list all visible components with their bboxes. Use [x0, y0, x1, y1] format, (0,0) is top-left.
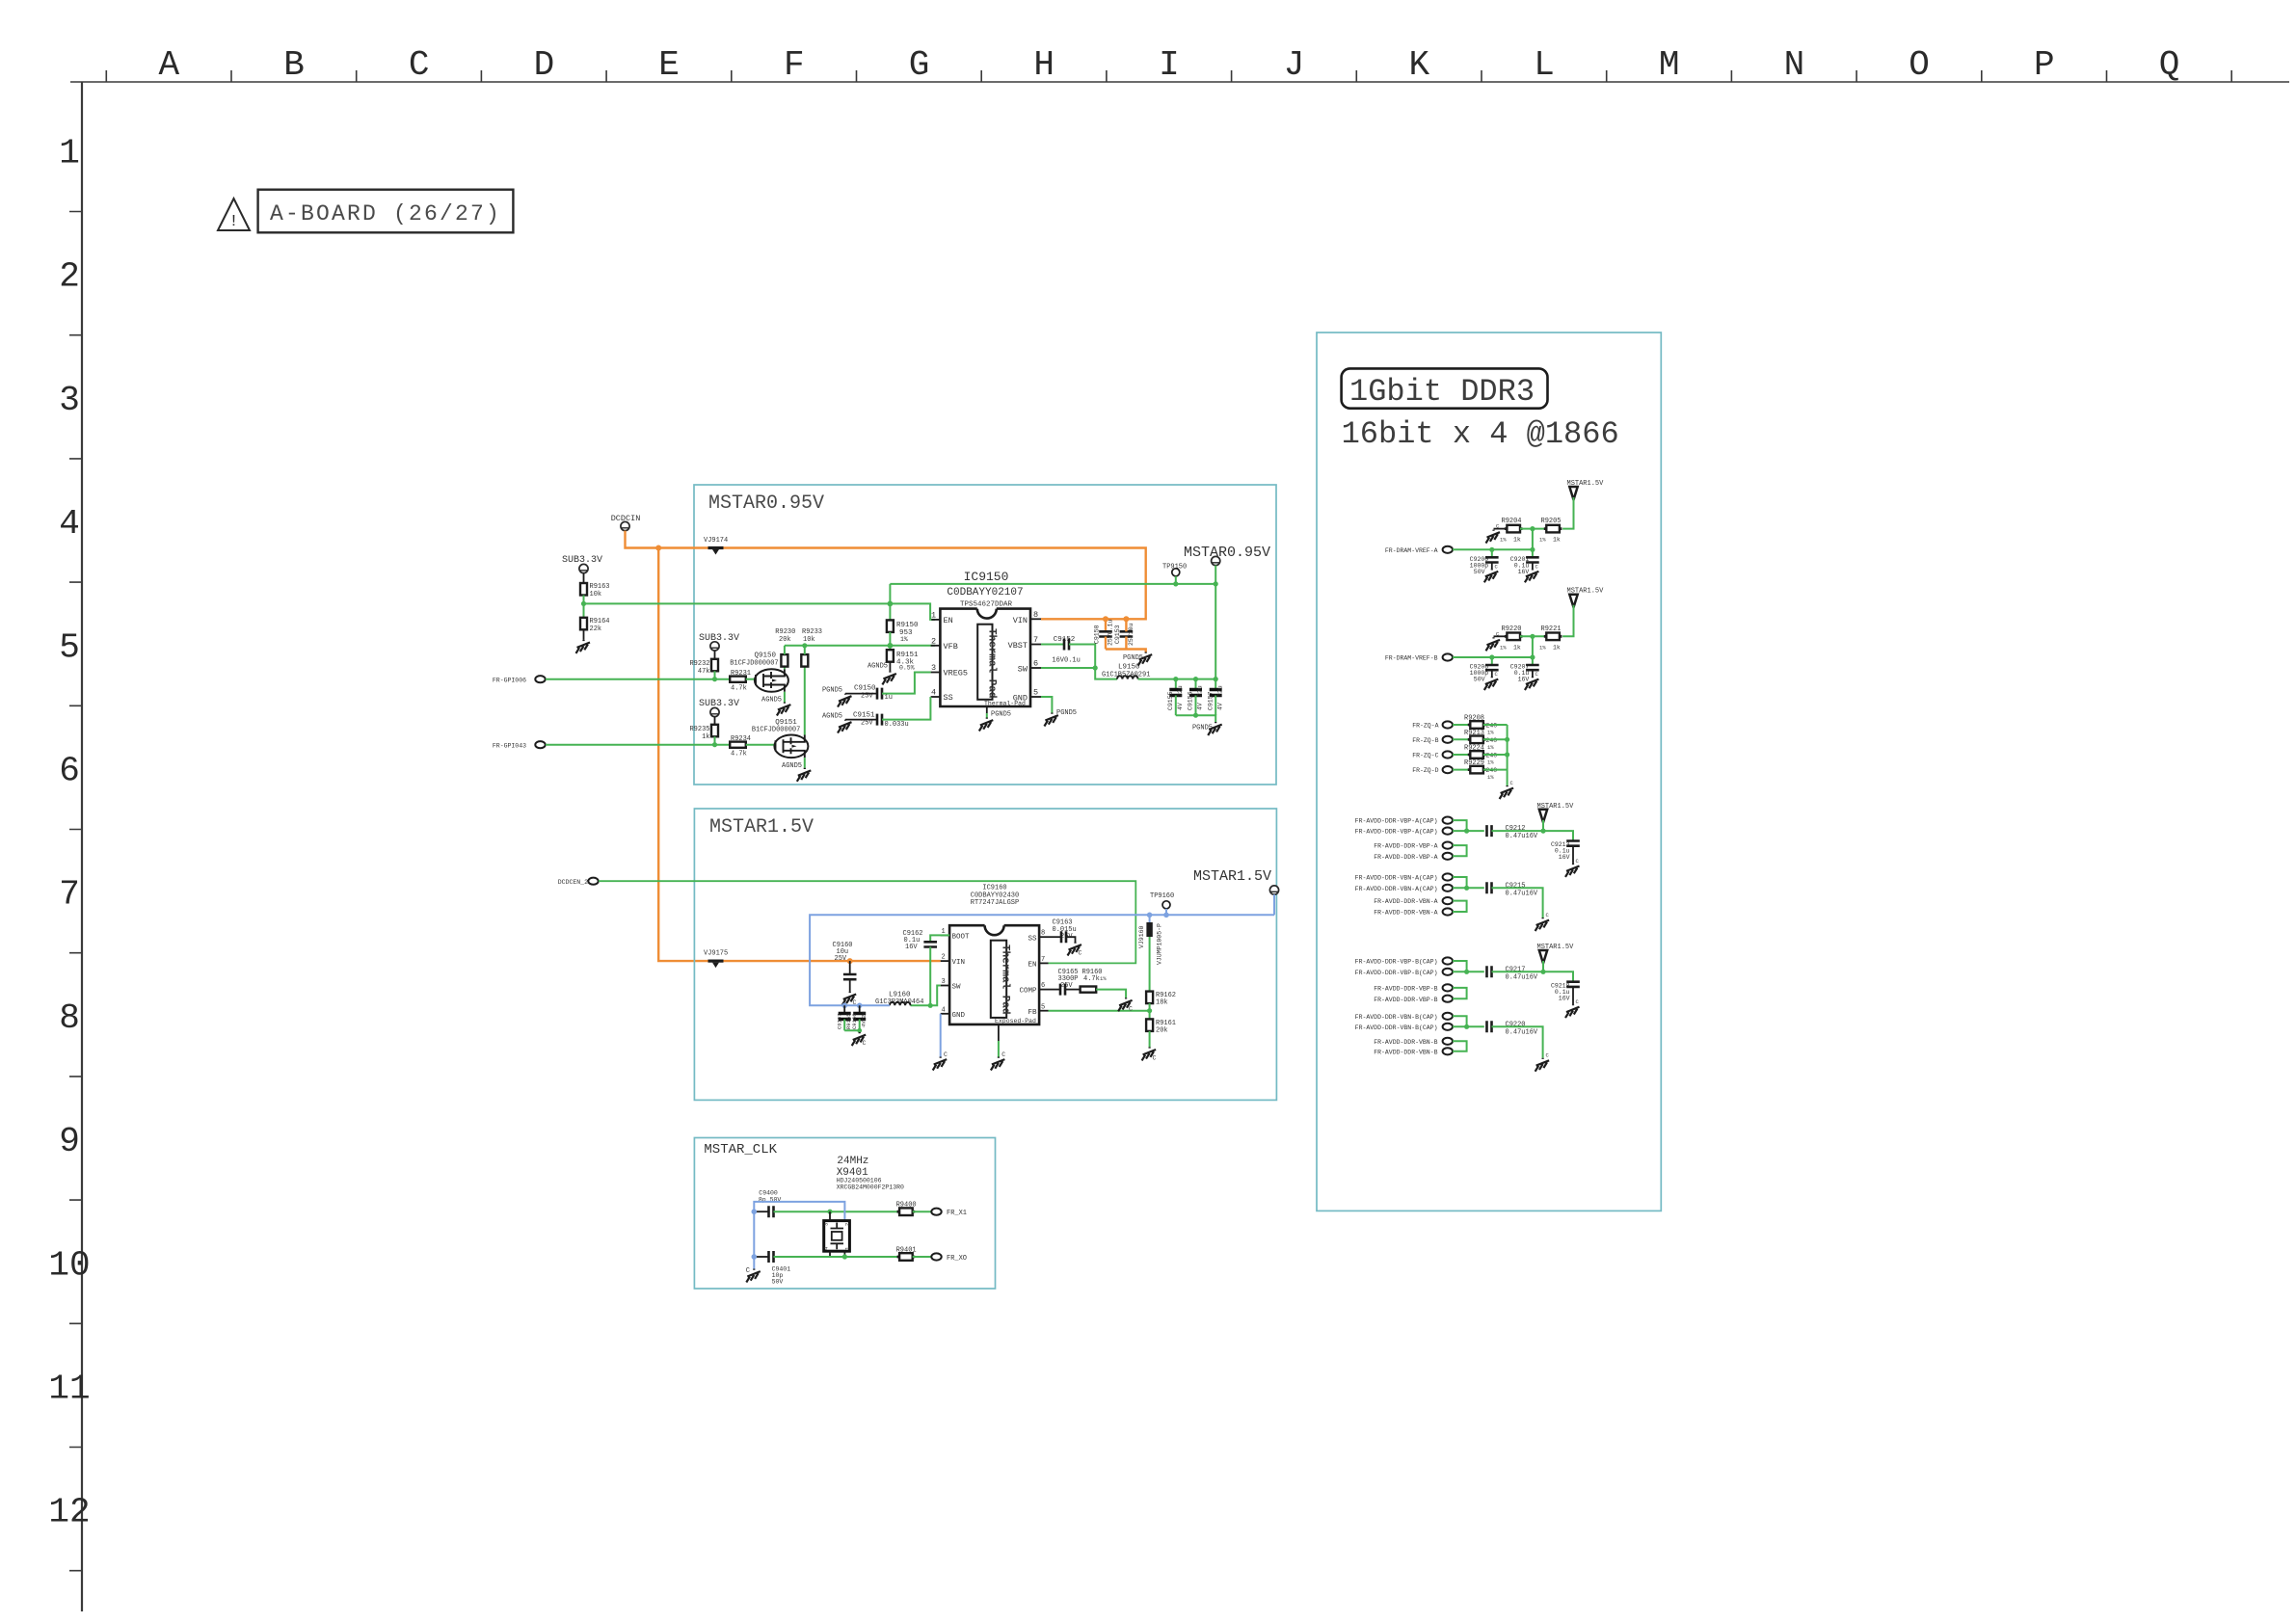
svg-text:C9167: C9167	[837, 1013, 843, 1029]
terminal FR-ZQ-B	[1412, 736, 1453, 744]
svg-text:6: 6	[59, 752, 80, 791]
IC9150 labels	[947, 570, 1023, 609]
svg-text:PGND5: PGND5	[991, 711, 1011, 719]
capacitor C9215 0.47u16V	[1487, 882, 1538, 897]
svg-text:1%: 1%	[1539, 644, 1546, 651]
wire pair	[1453, 1016, 1484, 1026]
wire	[1453, 769, 1470, 771]
resistor R9234 4.7k	[730, 735, 751, 758]
svg-text:6: 6	[1041, 982, 1045, 990]
title box A-BOARD (26/27)	[258, 190, 514, 233]
ground PGND5	[1044, 709, 1077, 727]
svg-text:B1CFJD000007: B1CFJD000007	[730, 660, 778, 668]
svg-text:C: C	[1079, 950, 1082, 957]
terminal FR-ZQ-A	[1412, 721, 1453, 729]
wire SW to inductor node	[911, 986, 941, 1006]
svg-text:GND: GND	[952, 1012, 966, 1020]
svg-text:Q: Q	[2159, 45, 2180, 85]
svg-text:C9158: C9158	[1094, 625, 1101, 644]
capacitor C9201 0.1u 16V	[1510, 549, 1539, 582]
svg-text:COMP: COMP	[1019, 988, 1037, 996]
blue wire to ground	[753, 1211, 755, 1268]
warning triangle	[218, 199, 250, 231]
wire	[1520, 528, 1546, 530]
svg-text:D: D	[534, 45, 555, 85]
jumper VJ9160 VJUMP1005-P	[1138, 915, 1163, 991]
power MSTAR1.5V arrow (B-VBP)	[1537, 944, 1575, 971]
thermal pad box	[991, 941, 1011, 1018]
wire	[1483, 769, 1508, 771]
svg-text:Thermal Pad: Thermal Pad	[986, 628, 998, 699]
capacitor C9162 0.1u 16V bootstrap	[903, 930, 950, 1005]
wire	[1149, 1003, 1151, 1019]
svg-text:16V: 16V	[1559, 854, 1570, 861]
terminal FR-AVDD-DDR-VBN-B 2	[1374, 1048, 1453, 1055]
resistor R9150 953	[887, 620, 919, 643]
wire	[714, 651, 716, 659]
svg-text:R9221: R9221	[1541, 625, 1562, 633]
exposed pad wire	[998, 1024, 1000, 1041]
svg-text:20k: 20k	[1156, 1027, 1168, 1035]
svg-text:MSTAR1.5V: MSTAR1.5V	[1193, 868, 1271, 885]
svg-text:1: 1	[59, 134, 80, 173]
svg-text:FR-AVDD-DDR-VBP-B(CAP): FR-AVDD-DDR-VBP-B(CAP)	[1355, 959, 1438, 966]
svg-text:5: 5	[1041, 1004, 1045, 1012]
wire SW net	[1041, 668, 1117, 679]
svg-text:1%: 1%	[1100, 975, 1107, 982]
wire	[1520, 635, 1546, 637]
wire green EN net to pin1	[584, 603, 936, 620]
pin 2 VFB	[931, 637, 958, 652]
capacitor C9151 0.033u	[845, 697, 930, 729]
svg-text:VJ9175: VJ9175	[704, 950, 728, 958]
terminal FR-ZQ-C	[1412, 751, 1453, 758]
junctions	[1489, 547, 1494, 552]
svg-text:IC9150: IC9150	[964, 570, 1009, 584]
svg-text:R9232: R9232	[689, 660, 709, 668]
svg-text:VREG5: VREG5	[944, 669, 969, 678]
resistor R9204 1k	[1500, 518, 1523, 544]
capacitor C9217 0.47u16V	[1487, 966, 1538, 981]
svg-text:R9231: R9231	[731, 670, 751, 678]
compensation C9165 R9160	[1049, 969, 1127, 998]
svg-text:7: 7	[1041, 956, 1045, 964]
green junction	[827, 1210, 832, 1214]
svg-text:25V10u: 25V10u	[1128, 623, 1135, 646]
svg-text:Q9150: Q9150	[755, 652, 777, 660]
svg-text:R9233: R9233	[802, 628, 822, 636]
svg-text:!: !	[228, 213, 238, 231]
svg-text:7: 7	[59, 875, 80, 915]
junction FB	[1147, 1008, 1152, 1013]
svg-text:C: C	[944, 1051, 948, 1058]
wire	[889, 632, 891, 650]
svg-text:FB: FB	[1028, 1009, 1037, 1017]
junction divider	[1530, 634, 1535, 639]
svg-text:SW: SW	[1018, 665, 1028, 675]
svg-text:PGND5: PGND5	[822, 687, 842, 695]
resistor R9235 1k	[689, 725, 718, 741]
wire	[714, 736, 716, 744]
svg-text:BOOT: BOOT	[952, 934, 971, 942]
power SUB3.3V	[562, 555, 602, 573]
svg-text:4: 4	[942, 1007, 946, 1015]
svg-text:0.47u16V: 0.47u16V	[1506, 973, 1538, 981]
capacitor C9160 10u 25V	[833, 942, 857, 992]
svg-text:FR-AVDD-DDR-VBP-A: FR-AVDD-DDR-VBP-A	[1374, 854, 1437, 861]
capacitor C9158 0.1u	[1094, 619, 1114, 649]
terminal FR-GPI043	[493, 741, 546, 749]
thermal pad box	[977, 625, 997, 700]
pin 1 BOOT	[941, 928, 970, 942]
svg-text:1%: 1%	[1500, 537, 1507, 544]
junction	[1093, 665, 1098, 670]
power MSTAR1.5V arrow (A)	[1562, 480, 1604, 529]
orange junctions on VIN line	[1103, 616, 1108, 622]
svg-text:1k: 1k	[1553, 644, 1561, 651]
terminal FR_X1	[931, 1209, 967, 1217]
svg-text:AGND5: AGND5	[782, 762, 802, 770]
wire	[889, 662, 891, 672]
ground left of R9204	[1486, 523, 1508, 544]
transistor Q9150 B1CFJD000007	[730, 652, 788, 692]
ground AGND5	[822, 713, 852, 733]
svg-text:MSTAR1.5V: MSTAR1.5V	[709, 816, 814, 838]
terminal FR-DRAM-VREF-B	[1385, 653, 1453, 661]
power SUB3.3V second	[699, 633, 739, 651]
svg-text:1Gbit DDR3: 1Gbit DDR3	[1349, 374, 1535, 410]
svg-text:Exposed-Pad: Exposed-Pad	[995, 1018, 1036, 1024]
svg-text:20k: 20k	[779, 636, 791, 644]
wire pair U	[1453, 988, 1467, 998]
exposed pad wire	[986, 706, 988, 713]
svg-text:C9157: C9157	[1207, 691, 1214, 710]
svg-text:22u: 22u	[1216, 685, 1223, 697]
svg-text:FR-AVDD-DDR-VBN-A(CAP): FR-AVDD-DDR-VBN-A(CAP)	[1355, 875, 1438, 882]
svg-text:XRCGB24M000F2P13R0: XRCGB24M000F2P13R0	[837, 1184, 904, 1191]
svg-text:L: L	[1534, 45, 1555, 85]
svg-text:EN: EN	[1028, 962, 1036, 970]
svg-text:VJUMP1005-P: VJUMP1005-P	[1157, 923, 1163, 965]
junctions	[1489, 654, 1494, 659]
junction	[1214, 581, 1218, 586]
svg-text:FR-GPI043: FR-GPI043	[493, 742, 526, 749]
junction	[857, 1028, 862, 1033]
blue junctions	[841, 1003, 847, 1009]
capacitor C9163 0.015u SS	[1049, 919, 1077, 944]
wire cap bottom rail	[1176, 715, 1215, 722]
svg-text:5: 5	[1033, 688, 1038, 698]
svg-text:1u: 1u	[885, 694, 893, 702]
capacitor C9166	[851, 1005, 868, 1030]
resistor R9162 18k	[1146, 992, 1176, 1007]
regulator IC9160 body	[949, 925, 1039, 1024]
wire orange DCDCIN to VIN	[626, 531, 1146, 620]
wire	[714, 671, 716, 678]
wire	[1453, 754, 1470, 756]
svg-text:A: A	[158, 45, 179, 85]
svg-text:5: 5	[59, 627, 80, 667]
junction	[928, 1003, 933, 1008]
terminal FR-AVDD-DDR-VBP-B 1	[1374, 984, 1453, 992]
pin 8 SS	[1028, 930, 1048, 944]
wire FB	[1049, 1010, 1150, 1012]
capacitor C9401 10p 50V	[754, 1251, 899, 1286]
svg-text:VFB: VFB	[944, 642, 958, 652]
svg-text:22u: 22u	[1197, 685, 1204, 697]
row ticks left	[69, 212, 82, 1571]
terminal FR-ZQ-D	[1412, 766, 1453, 774]
junction divider	[1530, 526, 1535, 531]
svg-text:R9220: R9220	[1502, 625, 1522, 633]
svg-text:16V: 16V	[1518, 569, 1530, 575]
capacitor C9167	[837, 1005, 853, 1030]
svg-text:B: B	[283, 45, 305, 85]
terminal FR-AVDD-DDR-VBN-A 1	[1374, 897, 1453, 905]
svg-text:FR-DRAM-VREF-A: FR-DRAM-VREF-A	[1385, 547, 1438, 554]
svg-text:25V: 25V	[861, 720, 873, 728]
wire	[1483, 738, 1508, 740]
svg-text:50V: 50V	[772, 1279, 784, 1286]
wire VFB line	[785, 645, 935, 647]
svg-text:C9155: C9155	[1167, 691, 1174, 710]
svg-text:AGND5: AGND5	[868, 663, 888, 671]
resistor R9233 10k	[801, 628, 822, 667]
ground C	[746, 1267, 761, 1283]
wire source to ground	[784, 692, 786, 703]
resistor R9229 240	[1464, 759, 1497, 781]
crystal labels 24MHz X9401	[837, 1156, 904, 1191]
svg-text:SS: SS	[1028, 936, 1037, 944]
wire	[1149, 1031, 1151, 1048]
wire	[583, 596, 585, 618]
svg-text:1: 1	[931, 611, 936, 621]
pin 6 COMP	[1019, 982, 1048, 996]
terminal FR-AVDD-DDR-VBP-A 1	[1374, 842, 1453, 850]
svg-text:FR-AVDD-DDR-VBP-A(CAP): FR-AVDD-DDR-VBP-A(CAP)	[1355, 829, 1438, 836]
wire divider tap	[1532, 529, 1534, 550]
wire divider tap	[1532, 636, 1534, 657]
wire	[784, 646, 786, 654]
terminal FR_XO	[931, 1253, 967, 1262]
svg-text:C: C	[746, 1267, 750, 1275]
svg-text:4V22u: 4V22u	[861, 1011, 868, 1027]
pin 1 EN	[931, 611, 953, 626]
svg-text:16V0.1u: 16V0.1u	[1052, 657, 1080, 665]
test point TP9160	[1150, 892, 1174, 915]
svg-text:18k: 18k	[1156, 999, 1168, 1007]
svg-text:FR-AVDD-DDR-VBP-A(CAP): FR-AVDD-DDR-VBP-A(CAP)	[1355, 818, 1438, 825]
wire GND pin to ground	[1041, 697, 1052, 713]
svg-text:H: H	[1033, 45, 1055, 85]
wire pair	[1453, 961, 1484, 971]
svg-text:FR-ZQ-B: FR-ZQ-B	[1412, 737, 1438, 744]
svg-text:12: 12	[48, 1493, 90, 1532]
terminal MSTAR0.95V	[1184, 545, 1270, 584]
pin 8 VIN	[1013, 610, 1041, 625]
transistor Q9151 B1CFJD000007	[752, 719, 809, 758]
block border MSTAR-CLK	[694, 1138, 995, 1290]
wire blue output	[810, 915, 1274, 1005]
power MSTAR1.5V arrow (B)	[1562, 588, 1604, 637]
svg-text:C: C	[1129, 1006, 1133, 1013]
svg-text:16V: 16V	[1559, 995, 1570, 1001]
svg-text:16V: 16V	[1518, 677, 1530, 683]
wire to rail	[1492, 831, 1574, 840]
svg-text:3: 3	[823, 1223, 830, 1226]
junctions	[1505, 737, 1509, 742]
svg-text:R9224: R9224	[1464, 745, 1484, 753]
wire output vertical	[1215, 584, 1216, 679]
ground PGND5	[1123, 652, 1152, 666]
test point TP9150	[1162, 564, 1187, 587]
jumper VJ9174	[704, 537, 728, 555]
wire blue top loop	[754, 1202, 844, 1221]
svg-text:SUB3.3V: SUB3.3V	[699, 633, 739, 644]
terminal FR-AVDD-DDR-VBP-B(CAP) 1	[1355, 957, 1453, 965]
svg-text:VJ9160: VJ9160	[1138, 925, 1145, 948]
terminal FR-AVDD-DDR-VBN-A 2	[1374, 908, 1453, 916]
header 1Gbit DDR3	[1342, 368, 1548, 410]
svg-text:VIN: VIN	[1013, 616, 1028, 625]
svg-text:1k: 1k	[1513, 644, 1521, 651]
ground AGND5	[868, 663, 896, 685]
wire	[746, 678, 756, 680]
inductor L9150 G1C1B5ZA0291	[1102, 664, 1150, 679]
svg-text:0.47u16V: 0.47u16V	[1506, 890, 1538, 897]
junction	[712, 742, 717, 747]
svg-text:25V: 25V	[835, 955, 847, 963]
svg-text:4V: 4V	[1177, 703, 1184, 710]
capacitor C9157 22u	[1207, 679, 1223, 716]
svg-text:FR-AVDD-DDR-VBP-B: FR-AVDD-DDR-VBP-B	[1374, 997, 1437, 1003]
terminal FR-AVDD-DDR-VBP-A(CAP) 2	[1355, 828, 1453, 836]
svg-text:B1CFJD000007: B1CFJD000007	[752, 727, 800, 734]
svg-text:HDJ240500106: HDJ240500106	[837, 1178, 882, 1184]
resistor R9161 20k	[1146, 1019, 1176, 1034]
svg-text:G: G	[909, 45, 930, 85]
IC9160 labels	[971, 885, 1019, 908]
svg-text:22u: 22u	[1177, 685, 1184, 697]
ground C	[991, 1051, 1005, 1071]
power SUB3.3V third	[699, 699, 739, 717]
blue junction	[752, 1254, 758, 1260]
column ticks top	[106, 70, 2231, 82]
wire	[1483, 724, 1508, 726]
terminal FR-AVDD-DDR-VBP-A 2	[1374, 853, 1453, 861]
junction EN divider	[581, 601, 586, 606]
svg-text:8: 8	[59, 998, 80, 1038]
ground	[576, 640, 591, 653]
ground C	[1500, 780, 1514, 799]
resistor R9221 1k	[1539, 625, 1562, 652]
svg-text:4: 4	[931, 688, 936, 698]
svg-text:TP9160: TP9160	[1150, 892, 1174, 900]
svg-text:3: 3	[59, 381, 80, 420]
wire to ground	[1492, 888, 1543, 918]
svg-text:FR-AVDD-DDR-VBN-B(CAP): FR-AVDD-DDR-VBN-B(CAP)	[1355, 1014, 1438, 1021]
inductor L9160 G1C3R3MA0464	[875, 992, 923, 1007]
block border DDR3	[1317, 333, 1661, 1211]
svg-text:F: F	[784, 45, 805, 85]
blue junction	[752, 1209, 758, 1214]
svg-text:1%: 1%	[1487, 730, 1494, 736]
resistor R9163 10k	[580, 583, 610, 599]
svg-text:4.7k: 4.7k	[731, 685, 747, 693]
wire to ground	[1492, 1026, 1543, 1057]
svg-text:25V0.1u: 25V0.1u	[1108, 620, 1114, 646]
svg-text:4V: 4V	[1197, 703, 1204, 710]
svg-text:0.033u: 0.033u	[885, 721, 909, 729]
resistor R9205 1k	[1539, 518, 1562, 544]
ground C	[1118, 998, 1133, 1012]
svg-text:C9156: C9156	[1188, 691, 1194, 710]
svg-text:2: 2	[942, 954, 946, 962]
svg-text:FR-AVDD-DDR-VBN-B: FR-AVDD-DDR-VBN-B	[1374, 1039, 1437, 1046]
svg-text:IC9160: IC9160	[982, 885, 1006, 892]
svg-text:C: C	[1001, 1051, 1005, 1058]
terminal FR-AVDD-DDR-VBN-B 1	[1374, 1038, 1453, 1046]
svg-text:SUB3.3V: SUB3.3V	[699, 699, 739, 709]
resistor R9231 4.7k	[730, 670, 751, 693]
resistor R9220 1k	[1500, 625, 1523, 652]
wire orange cap gnd rail	[1106, 650, 1146, 652]
wire cap bottoms	[844, 1030, 860, 1032]
wire source to ground	[804, 758, 806, 768]
ground C	[933, 1051, 948, 1071]
junction	[888, 643, 894, 649]
svg-text:7: 7	[1033, 635, 1038, 645]
ground AGND5	[782, 762, 811, 782]
capacitor C9155 22u	[1167, 679, 1184, 716]
wire pair	[1453, 877, 1484, 888]
svg-text:50V: 50V	[1474, 677, 1485, 683]
terminal FR-DRAM-VREF-A	[1385, 546, 1453, 554]
svg-text:M: M	[1659, 45, 1680, 85]
svg-text:47k: 47k	[698, 668, 710, 676]
svg-text:L9150: L9150	[1118, 664, 1140, 672]
svg-text:FR-ZQ-C: FR-ZQ-C	[1412, 753, 1438, 759]
svg-text:FR-AVDD-DDR-VBN-A(CAP): FR-AVDD-DDR-VBN-A(CAP)	[1355, 886, 1438, 892]
terminal FR-AVDD-DDR-VBN-A(CAP) 2	[1355, 885, 1453, 892]
svg-text:J: J	[1284, 45, 1305, 85]
svg-text:E: E	[658, 45, 680, 85]
wire inductor to output	[1138, 678, 1216, 680]
svg-text:9: 9	[59, 1122, 80, 1161]
svg-text:FR-ZQ-D: FR-ZQ-D	[1412, 767, 1438, 774]
svg-text:A-BOARD (26/27): A-BOARD (26/27)	[270, 201, 501, 226]
wire	[913, 1211, 932, 1212]
wire	[1483, 754, 1508, 756]
svg-text:1%: 1%	[1500, 644, 1507, 651]
svg-text:EN: EN	[944, 616, 953, 625]
svg-text:FR-AVDD-DDR-VBN-A: FR-AVDD-DDR-VBN-A	[1374, 910, 1437, 917]
svg-text:1%: 1%	[1539, 537, 1546, 544]
svg-text:C9166: C9166	[851, 1013, 858, 1029]
junction	[888, 601, 894, 607]
wire pair U	[1453, 845, 1467, 856]
wire	[583, 573, 585, 583]
pin 4 GND	[941, 1007, 966, 1021]
svg-text:R9163: R9163	[590, 583, 610, 591]
resistor R9230 20k	[775, 628, 795, 667]
junction	[712, 677, 717, 681]
wire VBST net with C9152	[1041, 636, 1095, 668]
svg-text:C: C	[1153, 1055, 1157, 1062]
capacitor C9400 8p 50V	[754, 1190, 899, 1218]
junction orange C9160	[847, 958, 853, 964]
terminal FR-GPI006	[493, 676, 546, 683]
